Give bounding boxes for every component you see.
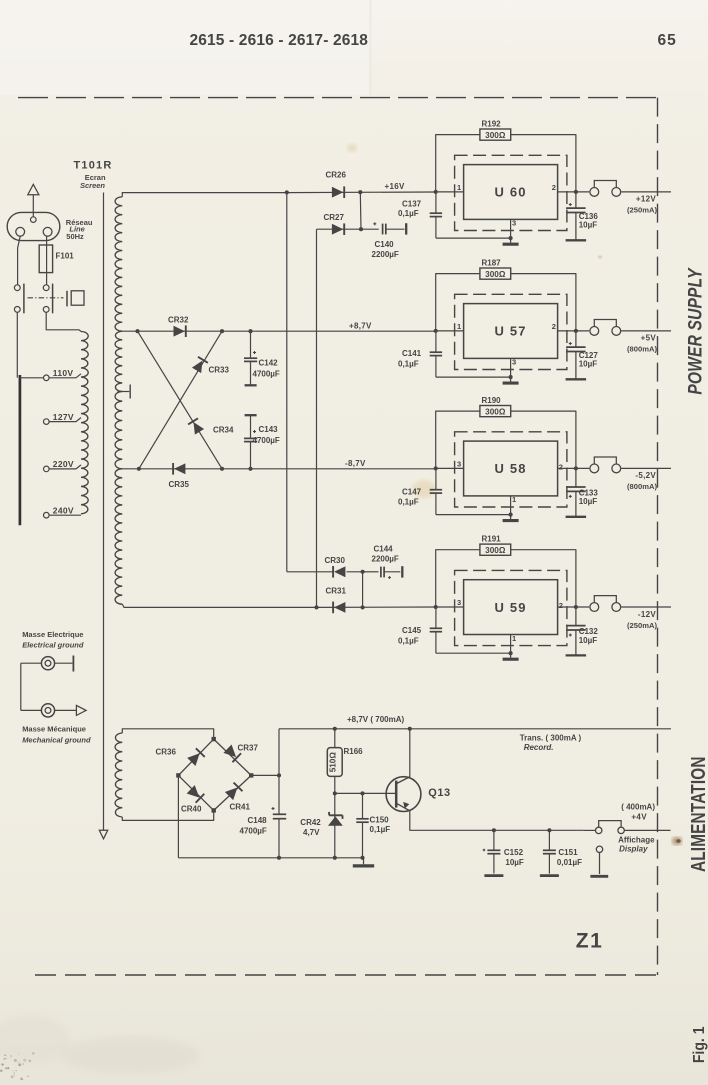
svg-text:65: 65 — [658, 32, 677, 49]
svg-text:C145: C145 — [402, 626, 422, 635]
svg-text:Masse Electrique: Masse Electrique — [22, 630, 83, 639]
svg-text:300Ω: 300Ω — [485, 408, 506, 417]
svg-text:ALIMENTATION: ALIMENTATION — [687, 756, 708, 872]
svg-text:+5V: +5V — [641, 334, 657, 343]
svg-text:(250mA): (250mA) — [627, 206, 657, 215]
svg-text:C144: C144 — [374, 545, 394, 554]
svg-text:-5,2V: -5,2V — [635, 471, 656, 480]
svg-text:+4V: +4V — [631, 813, 647, 822]
svg-text:2200µF: 2200µF — [372, 250, 399, 259]
svg-text:1: 1 — [512, 634, 516, 643]
svg-text:0,1µF: 0,1µF — [398, 498, 419, 507]
svg-text:Screen: Screen — [80, 181, 105, 190]
svg-text:0,1µF: 0,1µF — [370, 825, 391, 834]
svg-text:4700µF: 4700µF — [253, 436, 280, 445]
svg-text:C141: C141 — [402, 349, 422, 358]
svg-text:2: 2 — [552, 183, 556, 192]
svg-text:1: 1 — [512, 495, 516, 504]
svg-text:4700µF: 4700µF — [253, 370, 280, 379]
svg-text:+8,7V ( 700mA): +8,7V ( 700mA) — [347, 715, 404, 724]
svg-text:CR36: CR36 — [156, 748, 177, 757]
svg-text:C127: C127 — [579, 351, 599, 360]
svg-text:0,01µF: 0,01µF — [557, 858, 582, 867]
svg-text:C133: C133 — [579, 488, 599, 497]
svg-text:10µF: 10µF — [579, 636, 598, 645]
svg-text:50Hz: 50Hz — [66, 232, 84, 241]
svg-text:(800mA): (800mA) — [627, 345, 657, 354]
svg-text:C132: C132 — [579, 627, 599, 636]
svg-text:(250mA): (250mA) — [627, 621, 657, 630]
svg-text:220V: 220V — [53, 459, 74, 469]
svg-text:Z1: Z1 — [576, 930, 604, 953]
svg-text:3: 3 — [512, 219, 516, 228]
svg-text:Affichage: Affichage — [618, 835, 655, 844]
svg-text:R166: R166 — [344, 747, 364, 756]
svg-text:CR32: CR32 — [168, 316, 189, 325]
svg-text:Masse Mécanique: Masse Mécanique — [22, 725, 86, 734]
svg-text:U 57: U 57 — [494, 324, 526, 339]
svg-text:R192: R192 — [482, 119, 502, 128]
svg-text:R190: R190 — [482, 396, 502, 405]
svg-text:3: 3 — [457, 598, 461, 607]
svg-text:R187: R187 — [482, 258, 502, 267]
svg-text:CR31: CR31 — [326, 587, 347, 596]
svg-text:3: 3 — [512, 358, 516, 367]
svg-text:C142: C142 — [259, 359, 279, 368]
svg-text:4700µF: 4700µF — [240, 827, 267, 836]
svg-text:T101R: T101R — [74, 160, 113, 172]
svg-text:2615 - 2616 - 2617- 2618: 2615 - 2616 - 2617- 2618 — [190, 32, 369, 49]
svg-text:CR40: CR40 — [181, 805, 202, 814]
svg-text:0,1µF: 0,1µF — [398, 636, 419, 645]
svg-text:Electrical ground: Electrical ground — [22, 641, 84, 650]
svg-text:Fig. 1: Fig. 1 — [690, 1026, 708, 1063]
svg-text:CR33: CR33 — [209, 366, 230, 375]
svg-text:+16V: +16V — [385, 182, 405, 191]
svg-text:300Ω: 300Ω — [485, 131, 506, 140]
svg-text:C148: C148 — [248, 816, 268, 825]
svg-text:CR34: CR34 — [213, 426, 234, 435]
svg-text:-12V: -12V — [638, 610, 656, 619]
svg-text:1: 1 — [457, 183, 461, 192]
svg-text:110V: 110V — [53, 368, 74, 378]
svg-text:Record.: Record. — [524, 743, 554, 752]
svg-text:300Ω: 300Ω — [485, 546, 506, 555]
svg-text:10µF: 10µF — [579, 360, 598, 369]
svg-text:F101: F101 — [56, 252, 75, 261]
svg-text:0,1µF: 0,1µF — [398, 359, 419, 368]
svg-text:510Ω: 510Ω — [329, 752, 338, 773]
svg-text:C137: C137 — [402, 200, 422, 209]
svg-text:U 58: U 58 — [494, 461, 526, 476]
svg-text:CR26: CR26 — [326, 171, 347, 180]
svg-text:3: 3 — [457, 459, 461, 468]
svg-text:Display: Display — [619, 844, 648, 853]
svg-text:Trans. ( 300mA ): Trans. ( 300mA ) — [520, 734, 582, 743]
svg-text:CR35: CR35 — [169, 480, 190, 489]
svg-text:C152: C152 — [504, 848, 524, 857]
svg-text:1: 1 — [457, 322, 461, 331]
svg-text:2: 2 — [559, 601, 563, 610]
svg-text:10µF: 10µF — [579, 497, 598, 506]
svg-text:C150: C150 — [370, 816, 390, 825]
svg-text:C147: C147 — [402, 487, 422, 496]
svg-text:POWER SUPPLY: POWER SUPPLY — [684, 267, 706, 395]
svg-text:CR27: CR27 — [324, 213, 345, 222]
svg-text:2: 2 — [552, 322, 556, 331]
svg-text:U 60: U 60 — [494, 185, 526, 200]
svg-text:300Ω: 300Ω — [485, 270, 506, 279]
svg-text:CR41: CR41 — [230, 803, 251, 812]
svg-text:Mechanical ground: Mechanical ground — [22, 736, 91, 745]
svg-text:U 59: U 59 — [494, 600, 526, 615]
svg-text:( 400mA): ( 400mA) — [621, 803, 655, 812]
svg-text:10µF: 10µF — [505, 858, 524, 867]
svg-text:2: 2 — [559, 462, 563, 471]
svg-text:+12V: +12V — [636, 195, 656, 204]
svg-text:C136: C136 — [579, 212, 599, 221]
svg-text:10µF: 10µF — [579, 221, 598, 230]
svg-text:+8,7V: +8,7V — [349, 322, 372, 331]
svg-text:C143: C143 — [259, 425, 279, 434]
svg-text:Q13: Q13 — [428, 787, 450, 799]
svg-text:(800mA): (800mA) — [627, 482, 657, 491]
svg-text:CR30: CR30 — [325, 556, 346, 565]
svg-text:240V: 240V — [53, 505, 74, 515]
svg-text:-8,7V: -8,7V — [345, 459, 366, 468]
svg-text:C140: C140 — [375, 240, 395, 249]
svg-text:C151: C151 — [558, 848, 578, 857]
svg-text:127V: 127V — [53, 412, 74, 422]
svg-text:4,7V: 4,7V — [303, 828, 320, 837]
svg-text:CR37: CR37 — [238, 744, 259, 753]
svg-text:0,1µF: 0,1µF — [398, 209, 419, 218]
svg-text:CR42: CR42 — [300, 818, 321, 827]
svg-text:2200µF: 2200µF — [372, 555, 399, 564]
svg-text:R191: R191 — [482, 535, 502, 544]
